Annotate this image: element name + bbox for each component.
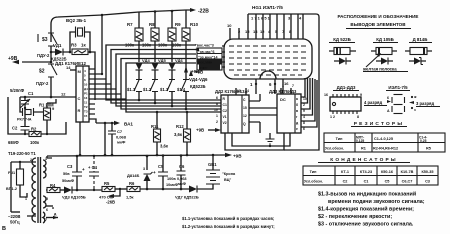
svg-text:Д4: Д4 bbox=[84, 87, 88, 91]
svg-text:9: 9 bbox=[360, 93, 362, 97]
wire x102 vertical from rail bbox=[101, 15, 103, 74]
svg-text:ПДУ-2: ПДУ-2 bbox=[37, 53, 50, 58]
svg-text:"зв.час"6: "зв.час"6 bbox=[198, 50, 214, 54]
node sw3-bus bbox=[171, 105, 174, 108]
display bottom pins bbox=[256, 79, 283, 94]
transformer secondary 1 bbox=[43, 160, 46, 178]
svg-text:3,6к: 3,6к bbox=[174, 132, 183, 137]
svg-text:1к: 1к bbox=[81, 43, 86, 48]
svg-text:5: 5 bbox=[46, 197, 48, 201]
svg-text:VД3 КД105Б: VД3 КД105Б bbox=[62, 195, 86, 200]
switch S1.4 bbox=[181, 80, 189, 92]
svg-text:С3: С3 bbox=[425, 180, 430, 184]
svg-text:0,125: 0,125 bbox=[356, 139, 364, 143]
svg-text:КД 522Б: КД 522Б bbox=[333, 37, 351, 42]
node loop-gnd bbox=[269, 145, 271, 147]
svg-text:R9: R9 bbox=[175, 22, 181, 27]
wire pin C line bbox=[20, 96, 76, 98]
svg-text:ВЫВОДОВ ЭЛЕМЕНТОВ: ВЫВОДОВ ЭЛЕМЕНТОВ bbox=[350, 22, 406, 27]
node R12 rail bbox=[186, 154, 189, 157]
wire DD2 bottom loop2 bbox=[232, 133, 290, 146]
wire S2 down to C-line bbox=[50, 77, 52, 97]
+9V label near display bbox=[189, 70, 193, 76]
svg-text:C6: C6 bbox=[179, 164, 185, 169]
diode VD3 bbox=[64, 187, 72, 194]
crystal BQ1 bbox=[20, 97, 40, 112]
svg-text:К10-7В: К10-7В bbox=[401, 170, 414, 174]
svg-text:С2: С2 bbox=[343, 180, 348, 184]
svg-text:$1.4: $1.4 bbox=[177, 87, 186, 92]
svg-text:7: 7 bbox=[292, 84, 294, 88]
svg-text:16: 16 bbox=[284, 81, 289, 86]
svg-text:С1-4-0,125: С1-4-0,125 bbox=[374, 137, 393, 141]
svg-text:8: 8 bbox=[216, 102, 218, 106]
bus wire b4 bbox=[126, 63, 221, 112]
svg-text:5/20пФ: 5/20пФ bbox=[10, 88, 25, 93]
svg-text:мкФ: мкФ bbox=[117, 140, 126, 145]
svg-text:ДД1 К176ИЕ12: ДД1 К176ИЕ12 bbox=[55, 61, 86, 66]
svg-text:13: 13 bbox=[84, 96, 88, 100]
svg-text:3 разряд: 3 разряд bbox=[416, 101, 434, 106]
svg-text:$1.3-вызов на индикацию показа: $1.3-вызов на индикацию показаний bbox=[318, 191, 416, 198]
diode VD5 bbox=[152, 63, 159, 70]
svg-text:Д 814Б: Д 814Б bbox=[413, 37, 428, 42]
capacitors table bbox=[303, 166, 438, 185]
wire ladder w6 bbox=[301, 80, 317, 127]
svg-text:С1: С1 bbox=[364, 180, 369, 184]
svg-text:100к: 100к bbox=[30, 140, 40, 145]
svg-text:4: 4 bbox=[247, 89, 249, 93]
svg-text:C7: C7 bbox=[117, 129, 123, 134]
+9V bottom rail bbox=[47, 155, 226, 156]
svg-text:$1.4-коррекция показаний време: $1.4-коррекция показаний времени; bbox=[318, 206, 414, 213]
diode VD4 bbox=[136, 63, 143, 70]
node rail-x102 bbox=[101, 14, 104, 17]
svg-text:-26В: -26В bbox=[106, 200, 115, 205]
wire BA1 line bbox=[96, 122, 116, 124]
node R11 rail bbox=[156, 154, 159, 157]
svg-text:+9В: +9В bbox=[196, 128, 204, 133]
svg-text:50мкФ: 50мкФ bbox=[62, 179, 75, 183]
svg-text:Тип: Тип bbox=[336, 137, 344, 141]
svg-text:13: 13 bbox=[237, 89, 241, 93]
node sw2-bus bbox=[154, 102, 157, 105]
svg-text:7: 7 bbox=[45, 218, 47, 222]
svg-text:0,068: 0,068 bbox=[177, 177, 187, 181]
svg-text:6: 6 bbox=[387, 96, 389, 100]
svg-text:1 7 1 6 5 1: 1 7 1 6 5 1 bbox=[251, 16, 271, 21]
svg-text:10: 10 bbox=[84, 83, 88, 87]
bus wire b3 bbox=[121, 59, 221, 110]
svg-text:ПДУ-2: ПДУ-2 bbox=[36, 81, 49, 86]
svg-text:"вос.час"3: "вос.час"3 bbox=[195, 44, 214, 48]
diode VD6 bbox=[169, 63, 176, 70]
svg-text:$1.2-установка показаний в раз: $1.2-установка показаний в разрядах мину… bbox=[182, 224, 275, 229]
part D814B body bbox=[405, 50, 432, 52]
switch S1.3 bbox=[167, 80, 175, 92]
node C2 bottom bbox=[24, 133, 26, 135]
wire ladder w5 bbox=[301, 79, 315, 121]
wire DD1 bottom to rail bbox=[79, 122, 81, 155]
display bottom arc bbox=[260, 71, 276, 79]
svg-text:R8: R8 bbox=[149, 22, 155, 27]
transformer core bbox=[38, 157, 41, 223]
+9V arrow at S1.4 bbox=[184, 66, 188, 73]
mains input wire bbox=[11, 162, 36, 216]
svg-text:R3: R3 bbox=[71, 43, 77, 48]
svg-text:R11: R11 bbox=[151, 124, 159, 129]
svg-text:ж: ж bbox=[413, 95, 417, 99]
transformer primary winding bbox=[32, 158, 36, 222]
svg-text:10: 10 bbox=[227, 23, 232, 28]
svg-text:"зв.мин"14: "зв.мин"14 bbox=[198, 55, 217, 59]
switch S3 bbox=[51, 33, 57, 44]
svg-text:0,25: 0,25 bbox=[420, 139, 427, 143]
svg-text:$2: $2 bbox=[39, 69, 45, 75]
svg-text:VД1: VД1 bbox=[53, 43, 62, 48]
wire ladder w2 bbox=[301, 78, 308, 103]
svg-text:+9В: +9В bbox=[195, 70, 203, 75]
node R3 right bbox=[89, 51, 92, 54]
display top pins long bbox=[248, 14, 298, 28]
node S2 top bbox=[50, 61, 53, 64]
svg-text:+9В: +9В bbox=[8, 56, 18, 62]
svg-text:С6,С7: С6,С7 bbox=[402, 180, 413, 184]
wire display pin4 loop to DD area bbox=[248, 14, 319, 150]
wire DD2 bottom loop1 bbox=[225, 133, 284, 150]
node sw1-bus bbox=[138, 99, 141, 102]
wire BA1 to rail bbox=[104, 123, 106, 155]
svg-text:VД7 КД522Б: VД7 КД522Б bbox=[175, 195, 199, 200]
switch S1.1 bbox=[134, 80, 142, 92]
svg-text:12: 12 bbox=[243, 114, 247, 118]
svg-text:б: б bbox=[296, 103, 298, 107]
svg-text:вос.мин: вос.мин bbox=[198, 61, 212, 65]
svg-text:~220В: ~220В bbox=[8, 214, 20, 219]
svg-text:12: 12 bbox=[61, 92, 66, 97]
svg-text:R12: R12 bbox=[176, 124, 184, 129]
wire bottom osc net bbox=[8, 97, 66, 134]
node C2 top bbox=[24, 107, 26, 109]
svg-text:R5: R5 bbox=[426, 147, 431, 151]
part D814B zener symbol bbox=[409, 60, 426, 62]
svg-text:C2: C2 bbox=[12, 126, 18, 131]
svg-text:16: 16 bbox=[324, 93, 328, 97]
svg-text:R1: R1 bbox=[361, 147, 366, 151]
svg-text:ДД3 К176ИД3: ДД3 К176ИД3 bbox=[269, 89, 297, 94]
bus wire b1 bbox=[111, 50, 221, 104]
transformer secondary 3 bbox=[43, 212, 45, 223]
node C3 bottom bbox=[76, 189, 79, 192]
node osc top bbox=[50, 51, 53, 54]
svg-text:в: в bbox=[296, 109, 298, 113]
svg-text:А: А bbox=[387, 109, 390, 113]
svg-text:Т3: Т3 bbox=[84, 110, 88, 114]
svg-text:РАСПОЛОЖЕНИЕ И ОБОЗНАЧЕНИЕ: РАСПОЛОЖЕНИЕ И ОБОЗНАЧЕНИЕ bbox=[337, 14, 418, 19]
part KD105B diode symbol bbox=[376, 60, 393, 62]
svg-text:мкФ: мкФ bbox=[178, 182, 187, 186]
svg-text:КТ-1: КТ-1 bbox=[341, 170, 349, 174]
svg-text:C1: C1 bbox=[223, 103, 227, 107]
svg-text:R5: R5 bbox=[104, 181, 110, 186]
display grid dashed lines bbox=[229, 46, 307, 75]
svg-text:3,6к: 3,6к bbox=[160, 144, 169, 149]
svg-text:50в: 50в bbox=[63, 172, 70, 176]
svg-text:68пФ: 68пФ bbox=[8, 140, 19, 145]
wire secondary3 to rail bbox=[47, 156, 52, 158]
svg-text:R: R bbox=[78, 108, 81, 113]
wire: S3 to node bbox=[50, 46, 52, 62]
node C-C1 bbox=[24, 96, 27, 99]
svg-text:К50-35: К50-35 bbox=[421, 170, 433, 174]
svg-text:$1.2: $1.2 bbox=[143, 87, 152, 92]
svg-text:R6: R6 bbox=[129, 181, 135, 186]
svg-text:КД522Б: КД522Б bbox=[190, 84, 206, 89]
svg-text:C: C bbox=[78, 96, 81, 101]
svg-text:1,5к: 1,5к bbox=[126, 195, 134, 200]
svg-text:$2 - переключение яркости;: $2 - переключение яркости; bbox=[318, 214, 392, 220]
-26V tap arrow bbox=[112, 189, 120, 196]
svg-text:6: 6 bbox=[216, 96, 218, 100]
node C3 rail bbox=[76, 155, 79, 158]
svg-text:"Крона: "Крона bbox=[222, 172, 236, 176]
svg-text:6: 6 bbox=[46, 208, 48, 212]
node rail-R9 bbox=[171, 10, 174, 13]
svg-text:R10: R10 bbox=[190, 22, 199, 27]
svg-text:е: е bbox=[296, 127, 298, 131]
svg-text:+9В: +9В bbox=[233, 154, 242, 159]
svg-text:R2: R2 bbox=[31, 127, 37, 132]
svg-text:$1.1: $1.1 bbox=[127, 87, 136, 92]
svg-text:1: 1 bbox=[282, 84, 284, 88]
part KD522B body bbox=[329, 50, 356, 52]
svg-text:+: + bbox=[82, 167, 85, 172]
svg-text:Р1: Р1 bbox=[84, 92, 88, 96]
svg-text:4 разряд: 4 разряд bbox=[364, 100, 382, 105]
node DD1-rail bbox=[79, 154, 82, 157]
bus wire b2 bbox=[116, 54, 221, 106]
digit dots bbox=[411, 96, 413, 98]
svg-text:Д814Б: Д814Б bbox=[127, 173, 140, 178]
part KD522B diode symbol bbox=[334, 60, 351, 62]
diode VD1 bbox=[51, 51, 70, 53]
svg-text:50Гц: 50Гц bbox=[10, 220, 20, 225]
svg-text:C1: C1 bbox=[28, 91, 34, 96]
node BA1 a bbox=[104, 122, 107, 125]
svg-text:желтая полоска: желтая полоска bbox=[362, 67, 397, 72]
svg-text:а: а bbox=[296, 97, 298, 101]
svg-text:DC: DC bbox=[280, 97, 286, 102]
svg-text:+ C4: + C4 bbox=[88, 165, 98, 170]
wire ladder w4 bbox=[301, 78, 313, 115]
bus wire b0 bbox=[106, 45, 221, 100]
node R11 bus bbox=[156, 111, 159, 114]
svg-text:времени подачи звукового сигна: времени подачи звукового сигнала; bbox=[328, 199, 425, 205]
svg-text:К50-16: К50-16 bbox=[381, 170, 393, 174]
svg-text:$3 - отключение звукового сигн: $3 - отключение звукового сигнала. bbox=[318, 222, 414, 228]
svg-text:+: + bbox=[153, 170, 156, 175]
svg-text:13: 13 bbox=[253, 29, 258, 34]
svg-text:$1.1-установка показаний в раз: $1.1-установка показаний в разрядах часо… bbox=[182, 216, 274, 221]
wire ladder w3 bbox=[301, 78, 310, 109]
svg-text:V2: V2 bbox=[223, 121, 227, 125]
part KD105B body bbox=[371, 50, 397, 52]
svg-text:15: 15 bbox=[243, 106, 247, 110]
svg-text:КТ4-23: КТ4-23 bbox=[360, 170, 372, 174]
svg-text:1 2: 1 2 bbox=[330, 115, 335, 119]
pin 14 M bbox=[70, 69, 76, 71]
node C7-rail bbox=[111, 154, 114, 157]
wire DD2-DD3 links bbox=[249, 101, 277, 122]
node BA1-rail bbox=[104, 154, 107, 157]
svg-text:100в: 100в bbox=[167, 177, 176, 181]
svg-text:BQ2 ЗБ-1: BQ2 ЗБ-1 bbox=[66, 18, 87, 23]
wire: top rail from left corner to -22V arrow bbox=[51, 10, 190, 42]
node pin stub bbox=[101, 73, 103, 75]
svg-text:10: 10 bbox=[214, 108, 218, 112]
node BA1 b bbox=[111, 122, 114, 125]
yellow stripe callout bbox=[366, 55, 379, 67]
svg-text:1: 1 bbox=[216, 114, 218, 118]
svg-text:Усл.обозн.: Усл.обозн. bbox=[304, 180, 323, 184]
wire R3 to bus bbox=[88, 52, 95, 100]
svg-text:ИЭЛ1-7/5: ИЭЛ1-7/5 bbox=[388, 85, 408, 90]
svg-text:R7: R7 bbox=[127, 22, 133, 27]
svg-text:Т19-220-50 Т1: Т19-220-50 Т1 bbox=[8, 151, 36, 156]
svg-text:Тип: Тип bbox=[310, 170, 318, 174]
svg-text:ВА1: ВА1 bbox=[124, 122, 133, 127]
capacitor C7 bbox=[111, 123, 113, 131]
svg-text:HG1 ИЭЛ1-7/5: HG1 ИЭЛ1-7/5 bbox=[252, 5, 283, 10]
svg-text:$3: $3 bbox=[42, 37, 48, 43]
svg-text:R2-R4,R6-R12: R2-R4,R6-R12 bbox=[373, 147, 398, 151]
wire ladder w1 bbox=[301, 78, 305, 97]
svg-text:3: 3 bbox=[143, 167, 145, 171]
ground symbol bbox=[269, 133, 271, 139]
resistors table bbox=[324, 133, 445, 152]
switch S1.2 bbox=[150, 80, 158, 92]
node R1 bottom bbox=[46, 133, 48, 135]
svg-text:10мкФ: 10мкФ bbox=[166, 183, 179, 187]
svg-text:C2: C2 bbox=[223, 109, 227, 113]
svg-text:15: 15 bbox=[245, 29, 250, 34]
node rail-R8 bbox=[154, 10, 157, 13]
svg-text:-22В: -22В bbox=[198, 9, 209, 15]
transformer secondary 2 bbox=[43, 196, 46, 208]
node sw4-bus bbox=[185, 108, 188, 111]
node R3 left bbox=[69, 51, 72, 54]
svg-text:VД4-VД6: VД4-VД6 bbox=[189, 77, 208, 82]
display top pins short bbox=[230, 28, 298, 39]
svg-text:ДД1-ДД3: ДД1-ДД3 bbox=[337, 85, 356, 90]
svg-text:8: 8 bbox=[357, 115, 359, 119]
wire DD1 carry to DD2 top bbox=[236, 88, 291, 95]
svg-text:12: 12 bbox=[260, 29, 265, 34]
net -22V arrow and label bbox=[190, 8, 196, 12]
svg-text:V1: V1 bbox=[223, 115, 227, 119]
svg-text:2: 2 bbox=[216, 120, 218, 124]
svg-text:В: В bbox=[2, 226, 6, 232]
svg-text:$1.3: $1.3 bbox=[160, 87, 169, 92]
node C-S2 bbox=[50, 96, 53, 99]
wire DD1 pin stubs right bbox=[89, 69, 126, 114]
svg-text:C3: C3 bbox=[67, 164, 73, 169]
+9V feed arrow left bbox=[22, 61, 51, 63]
wire secondary tap to R4 bbox=[46, 189, 47, 191]
svg-text:Т2: Т2 bbox=[84, 105, 88, 109]
svg-text:ДД2 К176ИЕ13А: ДД2 К176ИЕ13А bbox=[215, 89, 248, 94]
svg-text:ВЦ": ВЦ" bbox=[224, 178, 232, 182]
svg-text:Q: Q bbox=[243, 122, 246, 126]
svg-text:С5: С5 bbox=[385, 180, 390, 184]
svg-text:15: 15 bbox=[84, 114, 88, 118]
diode VD7 bbox=[189, 186, 197, 193]
svg-text:КД 105Б: КД 105Б bbox=[376, 37, 394, 42]
node R12 bus bbox=[186, 111, 189, 114]
svg-text:14: 14 bbox=[66, 65, 71, 70]
svg-text:Усл.обозн.: Усл.обозн. bbox=[325, 147, 344, 151]
svg-text:11: 11 bbox=[84, 101, 88, 105]
